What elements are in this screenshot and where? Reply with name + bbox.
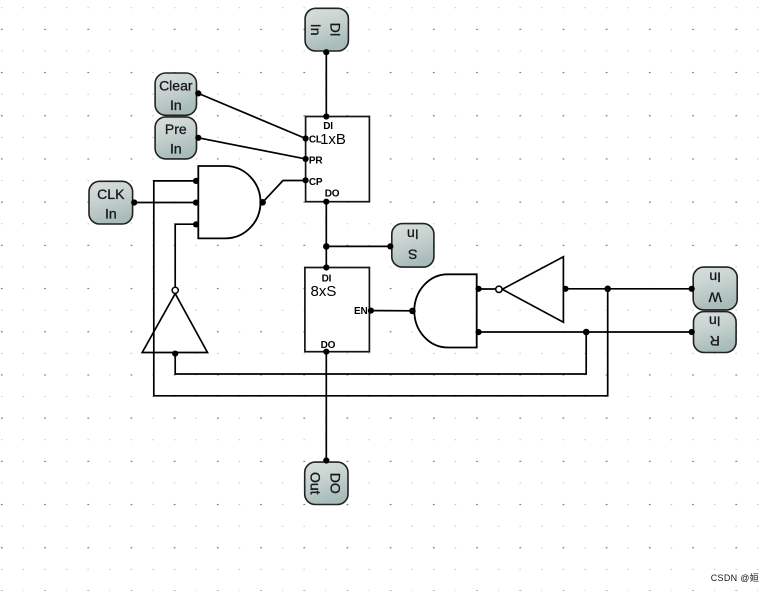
svg-text:In: In xyxy=(407,227,419,243)
register block 8xS xyxy=(305,264,374,354)
svg-text:PR: PR xyxy=(309,155,323,166)
svg-text:CLK: CLK xyxy=(97,186,125,202)
wire Pre In to 1xB PR xyxy=(198,138,305,159)
wire G3 output to 8xS EN xyxy=(371,310,413,312)
wire G2 bubble to G1 input 3 xyxy=(175,224,196,287)
port Clear In xyxy=(155,73,201,115)
svg-text:W: W xyxy=(708,289,722,305)
svg-text:R: R xyxy=(710,333,720,349)
svg-text:In: In xyxy=(105,206,117,222)
wire 1xB DO to 8xS DI with junction to S In xyxy=(323,202,390,268)
svg-text:DO: DO xyxy=(327,473,343,494)
wire G1 output to 1xB CP xyxy=(263,181,306,203)
3-input AND gate G1 xyxy=(193,166,266,238)
port CLK In xyxy=(89,181,137,224)
svg-text:CP: CP xyxy=(309,177,323,188)
svg-text:8xS: 8xS xyxy=(311,283,337,300)
svg-text:In: In xyxy=(170,97,182,113)
svg-text:DO: DO xyxy=(325,188,340,199)
register block 1xB xyxy=(303,113,370,204)
svg-text:1xB: 1xB xyxy=(320,131,346,148)
port DO Out xyxy=(305,457,348,504)
svg-text:In: In xyxy=(709,313,721,329)
svg-text:CSDN @姮: CSDN @姮 xyxy=(711,572,759,583)
wire 8xS DO to DO Out xyxy=(325,352,327,461)
port S In xyxy=(387,224,434,268)
wire W In net: W In pin to G4 input, junction, down and left to G1 input 1 xyxy=(154,181,692,396)
svg-text:S: S xyxy=(408,246,417,262)
svg-text:Clear: Clear xyxy=(159,77,193,93)
svg-text:Pre: Pre xyxy=(165,121,187,137)
svg-text:In: In xyxy=(709,270,721,286)
inverter G4 (pointing left, output bubble on left) xyxy=(496,257,569,322)
port Pre In xyxy=(155,117,201,159)
svg-text:In: In xyxy=(170,141,182,157)
svg-text:EN: EN xyxy=(354,306,368,317)
port W In xyxy=(689,267,738,310)
wire Clear In to 1xB CL xyxy=(198,93,305,138)
wire DI In to 1xB DI xyxy=(325,52,327,116)
wire CLK In to G1 input 2 xyxy=(134,202,196,204)
svg-text:In: In xyxy=(308,24,324,36)
svg-text:Out: Out xyxy=(308,472,324,495)
svg-text:DI: DI xyxy=(328,23,344,37)
port DI In (top input port) xyxy=(305,8,348,55)
wire G4 bubble to G3 input 1 xyxy=(479,288,496,290)
inverter G2 (pointing up, output bubble on top) xyxy=(142,287,207,357)
wire R In net: R In pin to G3 input 2, junction, down and left to inverter G2 input xyxy=(175,329,692,374)
port R In xyxy=(689,312,736,353)
2-input AND gate G3 (facing left) xyxy=(409,274,482,347)
